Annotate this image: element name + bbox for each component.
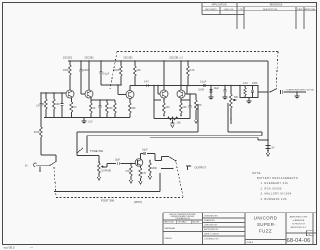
svg-text:100K: 100K <box>114 69 120 72</box>
wire: to output switch <box>258 91 268 93</box>
ground (output jack) <box>295 91 300 99</box>
wire: input channel vertical <box>34 93 56 162</box>
wire: long return rail B <box>87 135 262 137</box>
svg-text:10K: 10K <box>56 103 61 106</box>
svg-text:TONE SW: TONE SW <box>90 149 103 153</box>
svg-text:100K: 100K <box>152 167 158 170</box>
svg-text:4. BURGESS 2U6: 4. BURGESS 2U6 <box>261 197 287 201</box>
capacitor C12 (output) <box>281 90 307 94</box>
capacitor C5 (0.1uF coupling) <box>100 60 110 85</box>
svg-text:0.1µF: 0.1µF <box>103 73 110 76</box>
wire: pair emitter bus <box>154 118 190 120</box>
capacitor C2 (2200) <box>80 60 89 94</box>
resistor R6 <box>106 100 114 118</box>
switch SW4 arm <box>169 157 177 162</box>
resistor R16 (510K) <box>40 127 43 137</box>
resistor R10 (Q3 emitter) <box>129 98 137 117</box>
resistor R1 (Q1 collector load) <box>63 60 72 90</box>
application / revisions table <box>202 2 316 29</box>
transistor Q5 <box>177 60 185 98</box>
svg-text:100K: 100K <box>63 69 69 72</box>
transistor Q2 <box>85 60 93 98</box>
wire: ground loop bottom <box>54 173 160 192</box>
svg-text:0.1µF: 0.1µF <box>200 80 207 83</box>
svg-text:10µF: 10µF <box>142 149 148 152</box>
wire: long return rail A <box>77 131 198 133</box>
svg-text:AMPLIFIER CORP: AMPLIFIER CORP <box>290 215 308 218</box>
svg-text:470: 470 <box>142 172 147 175</box>
svg-text:USED ON: USED ON <box>224 9 234 11</box>
svg-text:WESTBURY N.Y.: WESTBURY N.Y. <box>290 227 306 229</box>
resistor R4 (Q1 emitter) <box>70 98 77 118</box>
jack J2 (output) <box>186 165 206 170</box>
svg-text:100: 100 <box>183 106 188 109</box>
svg-text:0.01: 0.01 <box>243 82 248 85</box>
wire: Q3 collector node <box>129 86 131 91</box>
svg-text:NEXT ASSY: NEXT ASSY <box>205 8 217 11</box>
svg-text:470: 470 <box>73 106 78 109</box>
svg-text:2SC281: 2SC281 <box>63 56 73 60</box>
ground (jack sleeve) <box>39 167 41 171</box>
svg-text:FUZZ: FUZZ <box>259 229 272 234</box>
wire: vertical from rail A <box>197 104 199 132</box>
resistor R15 <box>244 86 246 88</box>
svg-text:~~: ~~ <box>30 246 34 249</box>
transistor Q6 <box>135 159 143 167</box>
wire: Q6 collector output <box>141 154 144 160</box>
potentiometer VR3 (expander) <box>97 161 111 180</box>
wire: long return rail C <box>150 137 258 139</box>
resistor R3 (bias) <box>53 93 61 118</box>
svg-text:10µF: 10µF <box>115 159 121 162</box>
svg-text:of AMERICA: of AMERICA <box>293 219 305 222</box>
svg-text:CHECKED BY:: CHECKED BY: <box>204 225 218 227</box>
svg-text:DECIMALS: DECIMALS <box>178 221 188 224</box>
capacitor C7 <box>153 85 190 119</box>
wire: right vertical supply drop to battery <box>267 61 269 140</box>
resistor R11 (Q4 emitter) <box>163 98 171 117</box>
capacitor C3 <box>61 93 64 118</box>
svg-text:BATTERY REPLACEMENTS:: BATTERY REPLACEMENTS: <box>257 176 299 180</box>
RC network box <box>239 82 258 104</box>
svg-text:10µF: 10µF <box>214 87 220 90</box>
svg-text:1N34: 1N34 <box>198 89 204 92</box>
svg-text:NOTE:: NOTE: <box>252 171 262 175</box>
wire: volume feed <box>227 103 229 132</box>
wire: +9V top rail <box>68 60 268 62</box>
svg-text:CONTRACT NO.: CONTRACT NO. <box>204 238 220 241</box>
switch SW3 (tone) <box>77 132 103 162</box>
ground below box <box>248 98 250 102</box>
wire: Q1 base input node <box>41 92 66 94</box>
resistor R13 <box>195 94 203 123</box>
svg-text:9V: 9V <box>272 147 275 150</box>
wire: coupling to pair <box>135 85 158 87</box>
svg-text:100: 100 <box>166 106 171 109</box>
capacitor C8 <box>185 93 196 118</box>
resistor R8 (Q3 bias from rail) <box>114 60 123 85</box>
svg-text:1. EVEREADY 216: 1. EVEREADY 216 <box>261 181 289 185</box>
title block <box>163 213 316 244</box>
svg-text:FINISH: FINISH <box>165 238 173 240</box>
svg-text:2. RCA VS300: 2. RCA VS300 <box>261 186 282 190</box>
capacitor C4 <box>99 100 102 118</box>
svg-text:2200: 2200 <box>83 69 89 72</box>
svg-text:DATE: 4 JUN 68: DATE: 4 JUN 68 <box>204 233 220 236</box>
wire: to output switch <box>162 157 178 162</box>
svg-text:DATE: DATE <box>297 8 303 11</box>
ground (battery, chassis arrow) <box>266 153 270 156</box>
wire: dashed switch linkage top <box>117 51 278 53</box>
svg-text:EXPAND: EXPAND <box>102 170 112 173</box>
svg-text:REVISIONS: REVISIONS <box>270 5 283 7</box>
switch SW2 (input, on foot switch) <box>50 162 56 166</box>
svg-text:DESIGNED BY:: DESIGNED BY: <box>204 216 219 218</box>
capacitor C9 <box>200 80 207 87</box>
svg-text:MATERIAL: MATERIAL <box>165 227 177 230</box>
capacitor C11 <box>252 86 254 91</box>
svg-text:68-04-06: 68-04-06 <box>287 238 311 244</box>
svg-text:2SC281: 2SC281 <box>123 56 133 60</box>
capacitor C10 (electrolytic) <box>214 85 228 100</box>
wire: wiper to C13 <box>104 164 116 168</box>
resistor R18 (Q6 emitter) <box>139 166 147 184</box>
wire: emitter bus <box>44 117 130 119</box>
battery BT1 9V <box>266 139 275 153</box>
svg-text:(DPDT): (DPDT) <box>134 201 142 204</box>
capacitor C14 <box>142 149 162 162</box>
resistor R7 <box>114 100 117 118</box>
svg-text:SCALE: SCALE <box>247 241 254 244</box>
svg-text:TO AMPLIFIER INPUT (NOTE): TO AMPLIFIER INPUT (NOTE) <box>286 88 315 91</box>
svg-text:10K: 10K <box>137 69 142 72</box>
wire: Q2 emitter node <box>91 98 115 101</box>
svg-text:2SC281: 2SC281 <box>84 56 94 60</box>
resistor R9 (Q3 collector load) <box>134 60 142 85</box>
potentiometer VR2 (volume 50K) <box>230 85 239 124</box>
wire: coupling to Q3 base <box>101 84 118 86</box>
svg-text:SUPER-: SUPER- <box>257 222 276 227</box>
svg-text:8.2K: 8.2K <box>190 69 195 72</box>
resistor R2 (bias) <box>40 93 47 118</box>
svg-text:UNICORD: UNICORD <box>254 216 278 221</box>
svg-text:1.5V: 1.5V <box>88 121 93 124</box>
svg-text:FOOT SW: FOOT SW <box>101 199 114 203</box>
transistor Q3 <box>126 91 134 99</box>
wire: dashed linkage drop right <box>276 52 278 90</box>
ground (bus) <box>82 118 93 124</box>
wire: output network bus <box>187 85 240 87</box>
switch SW1 (output, on foot switch) <box>269 89 277 93</box>
svg-text:0.47: 0.47 <box>144 80 149 83</box>
svg-text:1K: 1K <box>93 107 96 110</box>
svg-text:100K: 100K <box>252 82 258 85</box>
svg-text:-a p'05.5: -a p'05.5 <box>3 246 15 250</box>
svg-text:50K: 50K <box>234 96 239 99</box>
svg-text:OUTPUT: OUTPUT <box>195 166 207 170</box>
svg-text:10K: 10K <box>177 122 182 125</box>
wire: pair base tie <box>157 85 187 94</box>
svg-text:10K: 10K <box>109 107 114 110</box>
svg-text:DRAWN BY:: DRAWN BY: <box>204 219 216 222</box>
svg-text:APPLICATION: APPLICATION <box>211 4 226 7</box>
svg-text:ANGLES: ANGLES <box>192 221 200 224</box>
svg-text:DESCRIPTION: DESCRIPTION <box>263 9 278 11</box>
svg-text:IN: IN <box>25 165 28 168</box>
svg-text:75 FRONT ST: 75 FRONT ST <box>292 223 306 225</box>
svg-text:FRACTIONS: FRACTIONS <box>164 221 175 224</box>
svg-text:APPROVAL: APPROVAL <box>304 8 316 11</box>
wire: dashed foot switch linkage <box>54 163 183 205</box>
resistor R5 <box>90 100 96 118</box>
svg-text:47K: 47K <box>125 170 130 173</box>
svg-text:LTR: LTR <box>239 9 243 11</box>
resistor R14 (rail dropper) <box>187 60 195 86</box>
wire: bypass contact <box>161 168 174 170</box>
capacitor C1 (input 0.1) <box>40 103 43 105</box>
resistor R12 (Q5 emitter) <box>180 98 188 117</box>
svg-text:APPROVED BY:: APPROVED BY: <box>204 228 219 231</box>
capacitor C13 (10uF) <box>115 159 136 166</box>
potentiometer VR1 (balance) <box>168 117 182 128</box>
capacitor C6 (0.47uF) <box>144 80 149 87</box>
jack J1 (input) <box>25 162 56 172</box>
note: battery replacements <box>252 171 299 201</box>
svg-text:2SC281 x 2: 2SC281 x 2 <box>169 56 183 60</box>
svg-text:3. MALLORY M-1604: 3. MALLORY M-1604 <box>261 192 292 196</box>
wire: Q3 base <box>117 85 119 95</box>
transistor Q1 <box>66 90 74 98</box>
svg-text:100: 100 <box>132 107 137 110</box>
resistor R17 <box>125 164 133 184</box>
wire: dashed linkage drop left <box>110 52 117 90</box>
svg-text:510K: 510K <box>34 131 40 134</box>
diode D1 <box>198 85 213 100</box>
resistor R19 <box>148 161 157 180</box>
transistor Q4 <box>160 60 168 98</box>
